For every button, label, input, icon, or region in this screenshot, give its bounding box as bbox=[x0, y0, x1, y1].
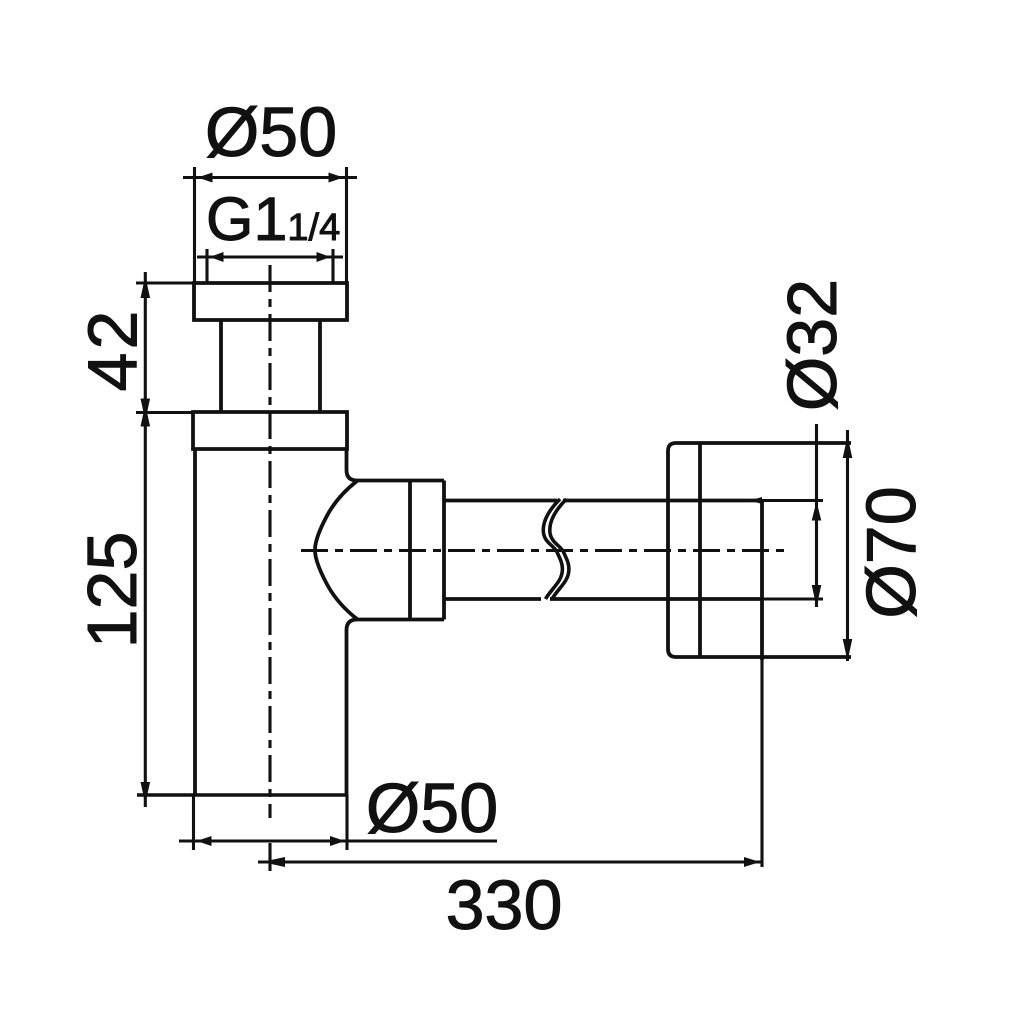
top flange bbox=[194, 283, 347, 320]
label Ø70 bbox=[852, 486, 930, 618]
outlet pipe bbox=[444, 501, 762, 600]
wall flange bbox=[668, 443, 851, 660]
svg-text:42: 42 bbox=[74, 308, 152, 392]
horizontal centerline bbox=[301, 549, 788, 552]
dimension line Ø50 top bbox=[183, 173, 357, 183]
label Ø32 bbox=[773, 279, 851, 411]
bottle body bbox=[137, 449, 357, 795]
dimension line Ø50 bottom bbox=[179, 836, 497, 846]
svg-text:330: 330 bbox=[446, 866, 563, 944]
dimension line Ø32 bbox=[812, 424, 822, 607]
svg-text:125: 125 bbox=[73, 532, 151, 649]
label 330 bbox=[446, 866, 563, 944]
vertical centerline bbox=[268, 265, 271, 818]
extension lines Ø50 top bbox=[195, 167, 347, 283]
dimension line G1 1/4 bbox=[197, 249, 343, 283]
pipe break bbox=[543, 499, 569, 599]
dimension line 42 and 125 bbox=[136, 272, 194, 807]
outlet nut bbox=[315, 481, 444, 620]
label Ø50 bottom bbox=[366, 769, 498, 847]
label Ø50 top bbox=[205, 93, 337, 171]
body top nut bbox=[193, 412, 347, 449]
label 125 bbox=[73, 532, 151, 649]
inlet pipe bbox=[221, 320, 320, 412]
label 42 bbox=[74, 308, 152, 392]
svg-text:Ø32: Ø32 bbox=[773, 279, 851, 411]
pipe surface extension lines bbox=[750, 497, 823, 599]
svg-text:Ø50: Ø50 bbox=[205, 93, 337, 171]
dimension line Ø70 bbox=[843, 430, 853, 661]
svg-text:Ø70: Ø70 bbox=[852, 486, 930, 618]
svg-text:Ø50: Ø50 bbox=[366, 769, 498, 847]
label G1 1/4 bbox=[206, 185, 340, 253]
extension lines Ø50 bottom bbox=[194, 795, 348, 850]
dimension line 330 bbox=[258, 843, 763, 871]
extension below wall flange bbox=[760, 660, 763, 867]
